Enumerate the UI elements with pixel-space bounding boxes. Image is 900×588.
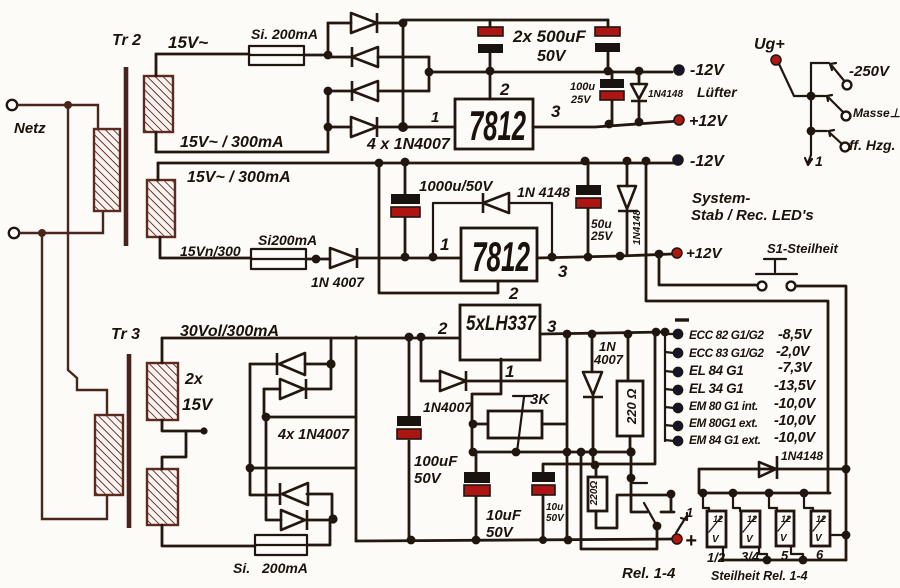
svg-text:15V~: 15V~ (168, 33, 208, 52)
svg-text:-10,0V: -10,0V (774, 430, 817, 446)
svg-text:15V~ / 300mA: 15V~ / 300mA (180, 134, 284, 151)
svg-text:7812: 7812 (472, 233, 530, 280)
svg-text:Si. 200mA: Si. 200mA (251, 26, 318, 42)
svg-text:12: 12 (781, 514, 791, 524)
svg-text:Stab / Rec. LED's: Stab / Rec. LED's (691, 207, 814, 224)
svg-text:2x: 2x (184, 371, 204, 388)
svg-text:220 Ω: 220 Ω (624, 389, 639, 425)
svg-text:Steilheit Rel. 1-4: Steilheit Rel. 1-4 (711, 569, 808, 583)
svg-text:ff. Hzg.: ff. Hzg. (849, 137, 895, 153)
svg-text:5xLH337: 5xLH337 (466, 312, 537, 335)
svg-text:50V: 50V (414, 470, 443, 487)
svg-text:5: 5 (781, 548, 789, 563)
svg-text:25V: 25V (570, 94, 592, 106)
svg-text:2: 2 (437, 319, 448, 338)
svg-text:V: V (746, 534, 754, 545)
svg-text:1/2: 1/2 (707, 550, 726, 565)
svg-text:7812: 7812 (469, 102, 526, 149)
svg-text:V: V (815, 533, 823, 544)
svg-text:10uF: 10uF (486, 507, 522, 524)
svg-text:-12V: -12V (690, 153, 725, 170)
svg-text:Rel. 1-4: Rel. 1-4 (622, 565, 676, 582)
svg-text:12: 12 (747, 514, 757, 524)
svg-text:-13,5V: -13,5V (774, 378, 817, 394)
svg-text:Si200mA: Si200mA (258, 232, 317, 248)
svg-text:+: + (685, 530, 697, 552)
svg-text:+12V: +12V (689, 113, 728, 130)
svg-text:+12V: +12V (686, 245, 723, 262)
svg-text:50V: 50V (546, 513, 565, 524)
svg-text:EL 84 G1: EL 84 G1 (689, 363, 743, 378)
svg-text:Netz: Netz (14, 120, 46, 137)
svg-text:1: 1 (505, 362, 514, 381)
svg-text:EM 84 G1 ext.: EM 84 G1 ext. (689, 433, 761, 447)
svg-text:12: 12 (816, 514, 826, 524)
svg-text:Si.: Si. (233, 560, 250, 576)
svg-text:ECC 83 G1/G2: ECC 83 G1/G2 (689, 346, 764, 360)
svg-text:ECC 82 G1/G2: ECC 82 G1/G2 (689, 328, 764, 342)
svg-text:1: 1 (431, 109, 439, 126)
svg-text:1: 1 (440, 235, 449, 254)
svg-text:4007: 4007 (593, 352, 624, 367)
svg-text:15V~ / 300mA: 15V~ / 300mA (187, 169, 291, 186)
svg-text:1N4148: 1N4148 (632, 210, 643, 245)
svg-text:25V: 25V (590, 229, 613, 243)
svg-text:3/4: 3/4 (741, 549, 760, 564)
svg-text:1000u/50V: 1000u/50V (419, 178, 494, 195)
svg-text:-10,0V: -10,0V (774, 413, 817, 429)
svg-text:EM 80 G1 int.: EM 80 G1 int. (689, 399, 758, 413)
svg-text:System-: System- (692, 190, 750, 207)
svg-text:1N4148: 1N4148 (781, 449, 823, 463)
svg-text:4x 1N4007: 4x 1N4007 (277, 427, 350, 443)
svg-text:1N 4007: 1N 4007 (311, 274, 365, 290)
svg-text:1: 1 (815, 153, 823, 169)
svg-text:-250V: -250V (849, 63, 891, 80)
svg-text:-2,0V: -2,0V (776, 344, 811, 360)
svg-text:3K: 3K (530, 391, 550, 408)
svg-text:-12V: -12V (690, 62, 725, 79)
svg-text:Tr 2: Tr 2 (112, 32, 141, 49)
svg-text:Masse⊥: Masse⊥ (853, 106, 900, 120)
svg-text:1N4148: 1N4148 (648, 89, 683, 100)
svg-text:50V: 50V (537, 48, 567, 65)
svg-text:2: 2 (499, 80, 510, 99)
svg-text:10u: 10u (546, 502, 563, 513)
svg-text:EM 80G1 ext.: EM 80G1 ext. (689, 416, 758, 430)
svg-text:Lüfter: Lüfter (697, 84, 738, 100)
svg-text:1N 4148: 1N 4148 (517, 184, 570, 200)
svg-text:3: 3 (558, 262, 568, 281)
svg-text:15V: 15V (182, 395, 214, 414)
svg-text:100u: 100u (570, 81, 595, 93)
svg-text:200mA: 200mA (261, 560, 308, 576)
svg-text:V: V (780, 533, 788, 544)
svg-text:220Ω: 220Ω (589, 481, 600, 507)
svg-text:S1-Steilheit: S1-Steilheit (767, 241, 838, 256)
svg-text:6: 6 (816, 547, 824, 562)
svg-text:50V: 50V (486, 524, 515, 541)
svg-text:-7,3V: -7,3V (778, 360, 813, 376)
svg-text:Ug+: Ug+ (754, 36, 785, 53)
svg-text:3: 3 (551, 102, 561, 121)
svg-text:12: 12 (713, 514, 723, 524)
svg-text:Tr 3: Tr 3 (111, 326, 140, 343)
svg-text:V: V (712, 534, 720, 545)
svg-text:1N4007: 1N4007 (423, 399, 473, 415)
svg-text:100uF: 100uF (414, 453, 458, 470)
svg-text:4 x 1N4007: 4 x 1N4007 (366, 136, 451, 153)
svg-text:-10,0V: -10,0V (774, 396, 817, 412)
svg-text:-8,5V: -8,5V (778, 327, 813, 343)
svg-text:2: 2 (508, 284, 519, 303)
svg-text:2x 500uF: 2x 500uF (512, 27, 586, 46)
svg-text:1: 1 (686, 505, 693, 520)
svg-text:EL 34 G1: EL 34 G1 (689, 381, 743, 396)
